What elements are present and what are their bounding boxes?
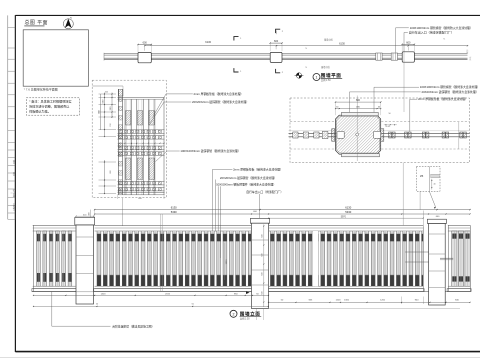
svg-text:60: 60 bbox=[378, 107, 380, 109]
svg-text:600: 600 bbox=[406, 41, 411, 44]
svg-text:600: 600 bbox=[274, 40, 279, 43]
svg-text:20X20X2mm 镀锌钢管（碳烤漆大息漆处理）: 20X20X2mm 镀锌钢管（碳烤漆大息漆处理） bbox=[422, 90, 479, 94]
svg-text:际情况进行调整，围墙颜色以: 际情况进行调整，围墙颜色以 bbox=[29, 104, 69, 109]
svg-text:600: 600 bbox=[261, 272, 263, 275]
svg-text:20X20X2mm 镀锌钢管（碳烤漆大息漆处理）: 20X20X2mm 镀锌钢管（碳烤漆大息漆处理） bbox=[220, 176, 277, 180]
svg-text:20X20X2mm 镀锌钢管（碳烤漆大息漆处理）: 20X20X2mm 镀锌钢管（碳烤漆大息漆处理） bbox=[192, 100, 249, 104]
svg-text:600: 600 bbox=[143, 42, 148, 45]
svg-text:5970: 5970 bbox=[341, 216, 347, 218]
svg-text:1800: 1800 bbox=[226, 259, 228, 265]
svg-text:50X50X5mm 钢板预埋件（碳烤漆大息漆处理）: 50X50X5mm 钢板预埋件（碳烤漆大息漆处理） bbox=[216, 183, 276, 187]
svg-text:600: 600 bbox=[261, 253, 263, 256]
svg-text:60: 60 bbox=[336, 107, 338, 109]
svg-text:100X100X3mm 钢管横管（碳烤漆大息漆处理）: 100X100X3mm 钢管横管（碳烤漆大息漆处理） bbox=[420, 85, 480, 89]
svg-text:600: 600 bbox=[261, 234, 263, 237]
svg-text:* 7.6 总图绿化种植平面图: * 7.6 总图绿化种植平面图 bbox=[24, 86, 58, 91]
svg-text:600: 600 bbox=[356, 99, 361, 102]
svg-text:台阶基础垫层（做法见建施工图）: 台阶基础垫层（做法见建施工图） bbox=[112, 325, 154, 329]
svg-text:40: 40 bbox=[434, 184, 436, 186]
svg-text:100X100X3mm 镀锌钢管（碳烤漆大息漆处理）: 100X100X3mm 镀锌钢管（碳烤漆大息漆处理） bbox=[180, 149, 240, 153]
svg-text:45 45: 45 45 bbox=[386, 126, 391, 128]
svg-text:50: 50 bbox=[389, 113, 391, 115]
svg-text:自行车出入口（烤漆定做配门厂）: 自行车出入口（烤漆定做配门厂） bbox=[409, 30, 454, 35]
svg-text:1200: 1200 bbox=[336, 299, 342, 301]
svg-text:样板确认为准。: 样板确认为准。 bbox=[29, 109, 51, 114]
svg-text:2mm 厚钢板垫板（碳烤漆大息漆处理）: 2mm 厚钢板垫板（碳烤漆大息漆处理） bbox=[194, 92, 244, 96]
svg-text:2mm 厚钢板垫板（碳烤漆大息漆处理）: 2mm 厚钢板垫板（碳烤漆大息漆处理） bbox=[233, 168, 283, 172]
svg-text:6130: 6130 bbox=[205, 40, 211, 44]
svg-text:600: 600 bbox=[261, 291, 263, 294]
svg-text:5330: 5330 bbox=[171, 210, 177, 214]
svg-text:2mm 厚钢板垫板（碳烤漆大息漆处理）: 2mm 厚钢板垫板（碳烤漆大息漆处理） bbox=[418, 97, 468, 101]
svg-text:1200: 1200 bbox=[380, 299, 386, 301]
svg-text:6130: 6130 bbox=[339, 42, 345, 46]
svg-text:600: 600 bbox=[105, 92, 108, 94]
svg-text:1: 1 bbox=[316, 76, 318, 80]
svg-text:2: 2 bbox=[233, 312, 235, 316]
svg-text:* 备注：具体施工时根据现场实: * 备注：具体施工时根据现场实 bbox=[29, 99, 71, 104]
svg-text:总图 平面: 总图 平面 bbox=[25, 19, 48, 26]
svg-text:自行车出入口（烤漆配门厂）: 自行车出入口（烤漆配门厂） bbox=[246, 190, 283, 194]
svg-text:100X100X3mm 钢管横管（碳烤防火大息漆处理）: 100X100X3mm 钢管横管（碳烤防火大息漆处理） bbox=[410, 26, 473, 30]
svg-text:1400: 1400 bbox=[101, 293, 107, 295]
svg-text:6130: 6130 bbox=[171, 206, 177, 210]
svg-text:2315: 2315 bbox=[165, 293, 171, 295]
svg-text:5330: 5330 bbox=[345, 210, 351, 214]
svg-text:400: 400 bbox=[89, 212, 91, 215]
svg-text:1300: 1300 bbox=[344, 299, 350, 301]
svg-text:6130: 6130 bbox=[345, 206, 351, 210]
